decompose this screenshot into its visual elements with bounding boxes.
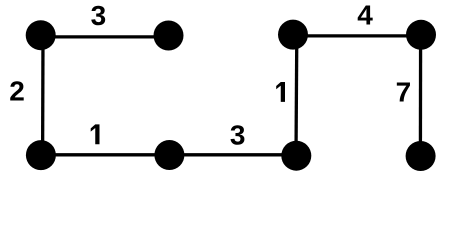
node H bottom-right: [406, 141, 436, 171]
node C bottom-left: [26, 140, 56, 170]
wire edge F-G: [293, 34, 421, 37]
node F top-third: [278, 20, 308, 50]
wire edge D-E: [169, 153, 296, 156]
node B top-second: [154, 21, 184, 51]
svg-text:7: 7: [396, 76, 412, 107]
node E bottom-third: [281, 141, 311, 171]
wire edge A-C: [41, 36, 45, 155]
wire edge C-D: [41, 153, 169, 156]
svg-text:3: 3: [91, 0, 107, 31]
label weight 1 on edge C-D: [91, 124, 100, 144]
node A top-left: [26, 20, 56, 50]
svg-text:2: 2: [9, 76, 25, 107]
node D bottom-second: [154, 140, 184, 170]
wire edge E-F: [294, 35, 298, 155]
node G top-right: [406, 20, 436, 50]
label weight 1 on edge E-F: [276, 82, 285, 102]
svg-text:3: 3: [230, 120, 246, 151]
wire edge A-B: [41, 35, 168, 38]
wire edge G-H: [419, 35, 423, 155]
svg-text:4: 4: [357, 0, 373, 31]
